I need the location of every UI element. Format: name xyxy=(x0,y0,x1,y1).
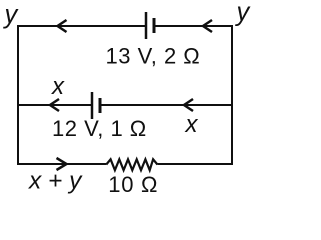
resistor R (10 ohm) zigzag xyxy=(106,159,157,170)
current arrow y (top-left, pointing left) xyxy=(58,20,67,32)
svg-text:x: x xyxy=(51,73,65,100)
wire: middle branch right segment xyxy=(100,104,232,106)
svg-text:x: x xyxy=(185,111,199,138)
label: current y (top-left) xyxy=(3,1,20,29)
svg-text:12 V, 1 Ω: 12 V, 1 Ω xyxy=(52,116,147,141)
wire: left vertical xyxy=(17,25,19,165)
battery B2 (12 V, 1 ohm) long plate xyxy=(91,92,94,119)
label: 12 V, 1 ohm xyxy=(52,116,147,141)
wire: middle branch left segment xyxy=(18,104,92,106)
current arrow x (middle-right, pointing left) xyxy=(184,99,193,111)
svg-text:13 V, 2 Ω: 13 V, 2 Ω xyxy=(106,44,201,69)
svg-text:x + y: x + y xyxy=(28,168,83,195)
svg-text:10 Ω: 10 Ω xyxy=(108,172,158,197)
label: 13 V, 2 ohm xyxy=(106,44,201,69)
wire: right vertical xyxy=(231,25,233,165)
label: current y (top-right) xyxy=(235,0,252,27)
wire: top branch right segment xyxy=(154,25,232,27)
battery B1 (13 V, 2 ohm) long plate xyxy=(145,12,148,39)
wire: top branch left segment xyxy=(18,25,146,27)
wire: bottom branch left segment xyxy=(18,163,106,165)
label: current x (middle-right) xyxy=(185,111,199,138)
battery B2 (12 V, 1 ohm) short plate xyxy=(99,98,102,113)
current arrow y (top-right, pointing left) xyxy=(203,20,212,32)
current arrow x (middle-left, pointing left) xyxy=(50,99,59,111)
label: current x + y (bottom) xyxy=(28,168,83,195)
svg-text:y: y xyxy=(3,1,20,29)
label: 10 ohm xyxy=(108,172,158,197)
battery B1 (13 V, 2 ohm) short plate xyxy=(153,18,156,33)
label: current x (middle-left) xyxy=(51,73,65,100)
wire: bottom branch right segment xyxy=(157,163,232,165)
current arrow x+y (bottom, pointing right) xyxy=(57,158,67,170)
svg-text:y: y xyxy=(235,0,252,27)
